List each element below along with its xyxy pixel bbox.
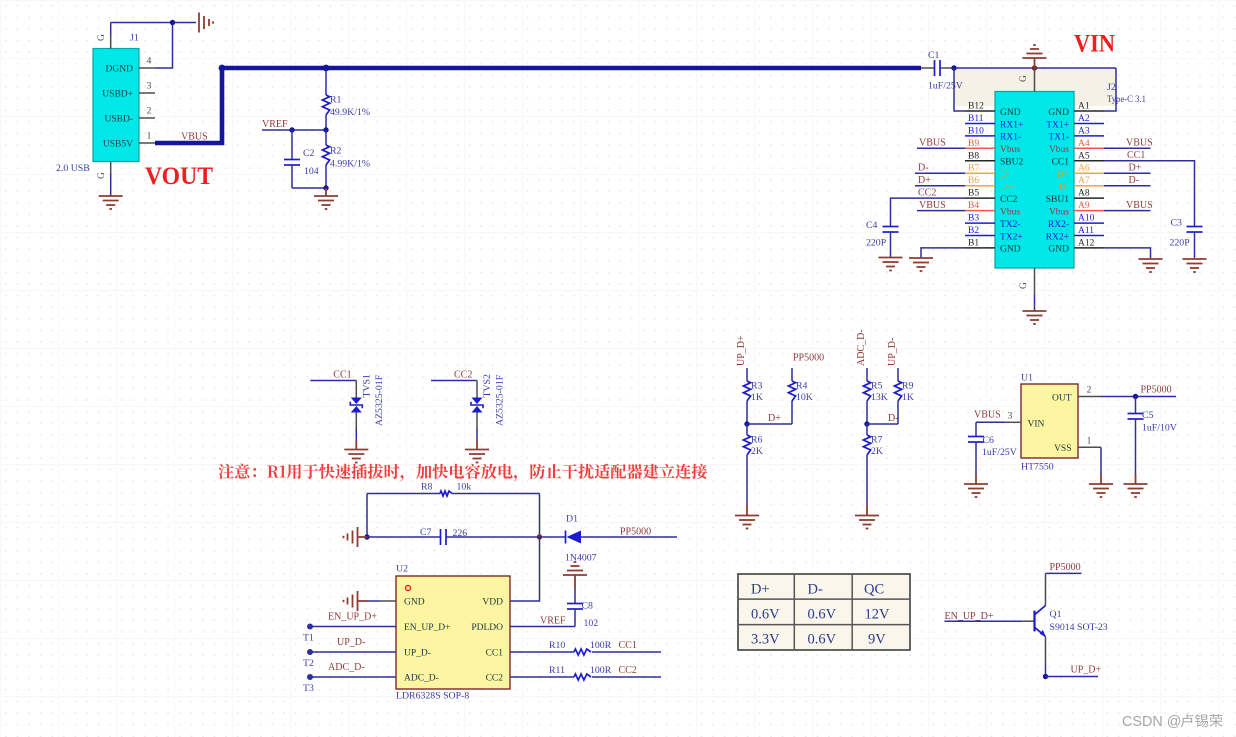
svg-text:A10: A10 (1078, 214, 1095, 224)
svg-text:2: 2 (147, 107, 152, 117)
svg-text:B9: B9 (968, 139, 979, 149)
connector J2 pin A4 (Vbus) (1074, 147, 1104, 149)
VBUS bus wire (thick) (155, 68, 921, 143)
svg-text:1K: 1K (751, 392, 763, 403)
svg-text:A3: A3 (1078, 126, 1090, 136)
svg-text:UP_D-: UP_D- (337, 637, 365, 648)
svg-text:D1: D1 (566, 514, 578, 525)
svg-text:A12: A12 (1078, 238, 1095, 248)
svg-text:VIN: VIN (1028, 420, 1045, 430)
svg-text:TVS1: TVS1 (362, 374, 373, 398)
ground above J2 (inverted) (1023, 57, 1047, 59)
svg-text:C3: C3 (1171, 218, 1183, 229)
capacitor C5 (1135, 397, 1137, 414)
svg-text:12V: 12V (865, 607, 891, 623)
svg-text:PP5000: PP5000 (1050, 562, 1081, 573)
IC U2 pin GND (380, 600, 396, 602)
capacitor C4 (883, 226, 899, 228)
connector J2 pin B11 (RX1+) (965, 123, 995, 125)
svg-text:100R: 100R (590, 640, 612, 651)
capacitor C3 (1187, 226, 1203, 228)
connector J2 pin B10 (RX1-) (965, 135, 995, 137)
svg-text:D-: D- (1059, 183, 1069, 193)
capacitor C1 (921, 67, 934, 69)
svg-text:T3: T3 (303, 683, 314, 694)
svg-text:Vbus: Vbus (1000, 207, 1020, 217)
wire VREF (262, 129, 326, 131)
connector J2 pin A3 (TX1-) (1074, 135, 1104, 137)
svg-text:C5: C5 (1142, 410, 1154, 421)
svg-text:CC1: CC1 (333, 370, 351, 381)
svg-text:VBUS: VBUS (919, 200, 946, 211)
svg-text:TX1-: TX1- (1048, 133, 1069, 143)
connector J2 pin G (top) (1034, 68, 1036, 92)
wire D+ A6 (1104, 172, 1151, 174)
svg-text:49.9K/1%: 49.9K/1% (330, 107, 370, 118)
junction C1 right (951, 65, 956, 70)
svg-text:1K: 1K (902, 392, 914, 403)
svg-text:ADC_D-: ADC_D- (328, 662, 365, 673)
svg-text:CC1: CC1 (1127, 150, 1145, 161)
svg-text:VIN: VIN (1074, 31, 1115, 58)
connector J1 pin 2 USBD- (139, 117, 155, 119)
IC U1 pin 1 VSS (1078, 446, 1101, 448)
resistor R8 (367, 493, 440, 495)
svg-text:TVS2: TVS2 (482, 374, 493, 398)
capacitor C8 (567, 603, 583, 605)
svg-text:D+: D+ (918, 175, 931, 186)
svg-text:D+: D+ (751, 582, 770, 598)
wire D- (867, 423, 898, 425)
svg-text:4.99K/1%: 4.99K/1% (330, 159, 370, 170)
svg-text:EN_UP_D+: EN_UP_D+ (945, 611, 994, 622)
capacitor C6 (975, 422, 977, 436)
transistor Q1 (1033, 611, 1035, 632)
connector J2 pin B8 (SBU2) (965, 160, 995, 162)
svg-text:A9: A9 (1078, 201, 1090, 211)
resistor R2 (325, 130, 327, 145)
svg-text:LDR6328S SOP-8: LDR6328S SOP-8 (396, 691, 469, 702)
junction C5 (1133, 394, 1138, 399)
svg-text:AZ5325-01F: AZ5325-01F (374, 374, 385, 426)
ground below R2 (325, 188, 327, 196)
svg-text:PP5000: PP5000 (1141, 385, 1172, 396)
svg-text:VDD: VDD (482, 598, 503, 608)
junction Q1 emitter (1043, 674, 1048, 679)
svg-text:B1: B1 (968, 238, 979, 248)
svg-text:4: 4 (147, 57, 152, 67)
wire J1 top G to ground (110, 23, 112, 37)
svg-text:R4: R4 (796, 381, 808, 392)
resistor R10 (510, 651, 574, 653)
svg-text:CC2: CC2 (918, 187, 936, 198)
wire CC1 to TVS1 (310, 380, 356, 382)
svg-text:UP_D-: UP_D- (887, 338, 898, 366)
svg-text:CC2: CC2 (486, 674, 504, 684)
wire J1 pin4 to top wire (155, 23, 173, 69)
connector J2 pin B3 (TX2-) (965, 222, 995, 224)
svg-text:1N4007: 1N4007 (565, 553, 597, 564)
resistor R4 (791, 368, 793, 381)
svg-text:UP_D+: UP_D+ (736, 335, 747, 366)
svg-text:TX2+: TX2+ (1000, 232, 1023, 242)
svg-text:RX1-: RX1- (1000, 133, 1021, 143)
wire CC1 A5 to C3 (1104, 161, 1195, 227)
svg-text:T2: T2 (303, 658, 314, 669)
svg-text:CC1: CC1 (619, 640, 637, 651)
svg-text:CSDN @: CSDN @ (1122, 714, 1181, 730)
svg-text:SBU2: SBU2 (1000, 158, 1023, 168)
ground below R6 (746, 505, 748, 515)
wire C2 bottom to R2 bottom (292, 187, 326, 189)
svg-text:R6: R6 (751, 435, 763, 446)
connector J2 pin A9 (Vbus) (1074, 210, 1104, 212)
svg-text:J1: J1 (130, 33, 139, 44)
connector J2 pin B7 (D-) (965, 172, 995, 174)
svg-text:VREF: VREF (540, 616, 566, 627)
wire B1 GND to ground (921, 248, 965, 257)
svg-text:3: 3 (1008, 411, 1013, 421)
svg-text:0.6V: 0.6V (751, 607, 780, 623)
svg-text:VSS: VSS (1054, 444, 1071, 454)
svg-text:D+: D+ (1129, 162, 1142, 173)
svg-text:RX1+: RX1+ (1000, 120, 1023, 130)
svg-text:10k: 10k (457, 482, 472, 493)
connector J2 body (995, 92, 1074, 269)
connector J2 pin B1 (GND) (965, 247, 995, 249)
connector J2 pin B2 (TX2+) (965, 235, 995, 237)
note text (red) (218, 464, 707, 482)
bus junction at corner (219, 65, 226, 72)
svg-text:CC1: CC1 (1052, 158, 1070, 168)
resistor R11 (510, 676, 574, 678)
svg-text:A11: A11 (1078, 226, 1094, 236)
svg-text:VBUS: VBUS (919, 138, 946, 149)
svg-text:C2: C2 (303, 148, 315, 159)
ground below J1 (99, 195, 123, 197)
svg-text:3: 3 (147, 82, 152, 92)
wire J1 bottom G to ground (110, 173, 112, 195)
svg-text:B6: B6 (968, 176, 979, 186)
testpoint T2 (307, 649, 313, 655)
svg-text:B10: B10 (968, 126, 984, 136)
svg-text:D+: D+ (1057, 170, 1069, 180)
svg-text:UP_D-: UP_D- (404, 649, 431, 659)
svg-text:2K: 2K (751, 446, 763, 457)
svg-text:220P: 220P (866, 238, 887, 249)
svg-text:PP5000: PP5000 (620, 527, 651, 538)
svg-text:EN_UP_D+: EN_UP_D+ (404, 623, 451, 633)
svg-text:USB5V: USB5V (103, 140, 133, 150)
ground below A12 (1139, 258, 1163, 260)
IC U2 body (396, 576, 510, 689)
svg-text:EN_UP_D+: EN_UP_D+ (328, 612, 377, 623)
wire D- A7 (1104, 185, 1151, 187)
svg-text:C6: C6 (983, 435, 995, 446)
svg-text:PDLDO: PDLDO (471, 623, 503, 633)
connector J2 pin B5 (CC2) (965, 197, 995, 199)
connector J2 pin B9 (Vbus) (965, 147, 995, 149)
junction top ground (1032, 65, 1037, 70)
capacitor C2 (291, 130, 293, 159)
svg-text:HT7550: HT7550 (1021, 462, 1054, 473)
wire A1 to top (1104, 68, 1116, 111)
svg-text:R1: R1 (330, 95, 342, 106)
connector J2 pin B4 (Vbus) (965, 210, 995, 212)
svg-text:B8: B8 (968, 151, 979, 161)
IC U2 pin PDLDO wire to C8 (510, 626, 575, 628)
resistor R6 (746, 424, 748, 435)
ground below TVS2 (476, 440, 478, 450)
svg-text:VBUS: VBUS (1126, 200, 1153, 211)
ground below C6 (975, 474, 977, 484)
connector J2 pin A5 (CC1) (1074, 160, 1104, 162)
svg-text:TX2-: TX2- (1000, 220, 1021, 230)
svg-text:D+: D+ (768, 413, 781, 424)
ground below C5 (1135, 474, 1137, 484)
wire ADC_D- to U2 (310, 676, 396, 678)
TVS diode TVS1 (355, 381, 357, 398)
svg-text:U2: U2 (396, 564, 408, 575)
connector J1 pin 3 USBD+ (139, 92, 155, 94)
svg-text:1: 1 (1087, 436, 1092, 446)
svg-text:A7: A7 (1078, 176, 1090, 186)
wire OUT to PP5000 (1101, 396, 1176, 398)
svg-text:100R: 100R (590, 665, 612, 676)
svg-text:A6: A6 (1078, 164, 1090, 174)
svg-text:RX2+: RX2+ (1046, 232, 1069, 242)
wire J2 bottom G to ground (1034, 295, 1036, 309)
svg-text:B11: B11 (968, 114, 984, 124)
wire VBUS A9 (1104, 210, 1151, 212)
svg-text:9V: 9V (868, 632, 886, 648)
junction D1-VDD node (537, 534, 542, 539)
svg-text:A5: A5 (1078, 151, 1090, 161)
svg-text:1uF/25V: 1uF/25V (928, 81, 963, 92)
svg-text:1uF/25V: 1uF/25V (982, 447, 1017, 458)
svg-text:TX1+: TX1+ (1046, 120, 1069, 130)
svg-text:Vbus: Vbus (1049, 145, 1069, 155)
ground below VSS (1100, 474, 1102, 484)
IC U1 pin 2 OUT (1078, 396, 1101, 398)
wire CC2 to TVS2 (431, 380, 477, 382)
svg-text:G: G (1019, 282, 1029, 289)
ground below C3 (1183, 258, 1207, 260)
chassis ground left of U2 (357, 591, 359, 611)
svg-text:CC1: CC1 (486, 649, 504, 659)
svg-text:R7: R7 (871, 435, 883, 446)
bus junction at R1 (323, 65, 330, 72)
wire VBUS B9 (917, 147, 965, 149)
svg-text:1: 1 (147, 132, 152, 142)
resistor R9 (897, 368, 899, 381)
svg-text:D-: D- (918, 162, 929, 173)
IC U1 body (1021, 384, 1078, 458)
svg-text:VREF: VREF (262, 119, 288, 130)
svg-text:Type-C 3.1: Type-C 3.1 (1107, 94, 1146, 105)
svg-text:GND: GND (1000, 108, 1021, 118)
svg-text:D-: D- (888, 413, 899, 424)
ground below C4 (879, 257, 903, 259)
svg-text:2K: 2K (871, 446, 883, 457)
svg-text:B4: B4 (968, 201, 979, 211)
connector J2 pin A2 (TX1+) (1074, 123, 1104, 125)
IC U1 pin 3 VIN (1005, 421, 1021, 423)
wire VDD vertical (510, 494, 540, 602)
connector J2 pin A12 (GND) (1074, 247, 1104, 249)
capacitor C7 (367, 536, 441, 538)
junction C7 left (364, 534, 369, 539)
svg-text:B2: B2 (968, 226, 979, 236)
connector J1 pin 1 USB5V (139, 142, 155, 144)
wire Q1 emitter to UP_D+ (1045, 637, 1047, 666)
svg-text:13K: 13K (871, 392, 888, 403)
junction D+ node (744, 421, 749, 426)
room highlight rectangle (954, 68, 1116, 106)
wire B12 to top (954, 68, 965, 111)
QC voltage table (738, 574, 910, 650)
wire D+ B6 (915, 185, 965, 187)
svg-text:0.6V: 0.6V (808, 607, 837, 623)
connector J2 pin A1 (GND) (1074, 110, 1104, 112)
svg-text:Vbus: Vbus (1000, 145, 1020, 155)
wire Q1 collector to PP5000 (1045, 573, 1047, 605)
svg-text:R2: R2 (330, 146, 342, 157)
svg-text:C4: C4 (866, 220, 878, 231)
svg-text:VBUS: VBUS (1126, 138, 1153, 149)
connector J2 pin A11 (RX2+) (1074, 235, 1104, 237)
svg-text:R10: R10 (549, 640, 565, 651)
svg-text:10K: 10K (796, 392, 813, 403)
svg-text:Vbus: Vbus (1049, 207, 1069, 217)
junction VREF-C2 (289, 127, 294, 132)
svg-text:UP_D+: UP_D+ (1071, 665, 1102, 676)
svg-text:D-: D- (808, 582, 823, 598)
wire UP_D+ (1046, 676, 1099, 678)
svg-text:CC2: CC2 (454, 370, 472, 381)
IC U2 pin-1 indicator circle (406, 586, 411, 591)
testpoint T3 (307, 674, 313, 680)
testpoint T1 (307, 624, 313, 630)
wire R8 left down (366, 494, 368, 538)
svg-text:GND: GND (1048, 108, 1069, 118)
connector J1 body (93, 49, 139, 162)
wire C1 to J2 top (954, 67, 1116, 69)
svg-text:GND: GND (1048, 245, 1069, 255)
svg-text:2.0 USB: 2.0 USB (56, 163, 90, 174)
svg-text:0.6V: 0.6V (808, 632, 837, 648)
connector J2 pin A10 (RX2-) (1074, 222, 1104, 224)
svg-text:VOUT: VOUT (145, 163, 213, 190)
svg-text:CC2: CC2 (1000, 195, 1018, 205)
wire VSS to ground (1100, 447, 1102, 474)
svg-text:GND: GND (404, 598, 425, 608)
svg-text:226: 226 (453, 528, 468, 539)
svg-text:USBD+: USBD+ (102, 90, 133, 100)
svg-text:R8: R8 (421, 482, 433, 493)
svg-text:2: 2 (1087, 386, 1092, 396)
TVS diode TVS2 (476, 381, 478, 398)
connector J2 pin B6 (D+) (965, 185, 995, 187)
svg-text:S9014 SOT-23: S9014 SOT-23 (1050, 622, 1108, 633)
diode D1 (540, 536, 566, 538)
resistor R1 (325, 70, 327, 95)
junction at ground node (323, 185, 328, 190)
svg-text:B3: B3 (968, 214, 979, 224)
svg-text:QC: QC (864, 582, 884, 598)
svg-text:A1: A1 (1078, 102, 1090, 112)
wire VBUS to VIN (976, 421, 1005, 423)
ground below B1 (920, 257, 922, 258)
svg-text:D+: D+ (1000, 183, 1012, 193)
connector J1 pin G (top) (110, 36, 112, 49)
chassis ground left of C7 (357, 527, 359, 547)
svg-text:J2: J2 (1107, 82, 1116, 93)
svg-text:VBUS: VBUS (974, 409, 1001, 420)
svg-text:G: G (97, 172, 107, 179)
svg-text:D-: D- (1129, 175, 1140, 186)
wire U2 GND to chassis ground (367, 600, 380, 602)
wire VBUS B4 (917, 210, 965, 212)
svg-text:104: 104 (304, 166, 319, 177)
ground below J2 (1023, 310, 1047, 312)
svg-text:B7: B7 (968, 164, 979, 174)
svg-text:G: G (97, 34, 107, 41)
junction VREF-R1-R2 (323, 127, 328, 132)
svg-text:ADC_D-: ADC_D- (856, 329, 867, 366)
svg-text:GND: GND (1000, 245, 1021, 255)
svg-text:R5: R5 (871, 381, 883, 392)
ground above C8 (inverted) (563, 574, 587, 576)
svg-text:T1: T1 (303, 633, 314, 644)
svg-text:AZ5325-01F: AZ5325-01F (495, 374, 506, 426)
resistor R7 (866, 424, 868, 435)
wire D- B7 (915, 172, 965, 174)
svg-text:PP5000: PP5000 (793, 353, 824, 364)
resistor R3 (746, 368, 748, 381)
svg-text:102: 102 (584, 618, 599, 629)
junction top-left (170, 20, 175, 25)
wire CC2 B5 to C4 (891, 198, 966, 226)
svg-text:A4: A4 (1078, 139, 1090, 149)
svg-text:3.3V: 3.3V (751, 632, 780, 648)
svg-text:B12: B12 (968, 102, 984, 112)
svg-text:D-: D- (1000, 170, 1010, 180)
svg-text:RX2-: RX2- (1048, 220, 1069, 230)
svg-text:A2: A2 (1078, 114, 1090, 124)
ground below R7 (866, 505, 868, 515)
ground below TVS1 (355, 440, 357, 450)
connector J1 pin G (bottom) (110, 162, 112, 174)
svg-text:R11: R11 (549, 665, 565, 676)
svg-text:1uF/10V: 1uF/10V (1142, 423, 1177, 434)
svg-text:SBU1: SBU1 (1046, 195, 1069, 205)
wire EN_UP_D+ to U2 (310, 626, 396, 628)
wire EN_UP_D+ to Q1 base (945, 620, 1023, 622)
connector J2 pin A8 (SBU1) (1074, 197, 1104, 199)
svg-text:OUT: OUT (1052, 394, 1072, 404)
svg-text:A8: A8 (1078, 189, 1090, 199)
svg-text:220P: 220P (1170, 238, 1191, 249)
connector J2 pin A7 (D-) (1074, 185, 1104, 187)
connector J1 pin 4 DGND (139, 67, 155, 69)
svg-text:Q1: Q1 (1050, 609, 1062, 620)
connector J2 pin G (bottom) (1034, 268, 1036, 295)
connector J2 pin B12 (GND) (965, 110, 995, 112)
svg-text:C8: C8 (582, 601, 594, 612)
chassis ground top-left (198, 13, 200, 33)
svg-text:ADC_D-: ADC_D- (404, 674, 439, 684)
